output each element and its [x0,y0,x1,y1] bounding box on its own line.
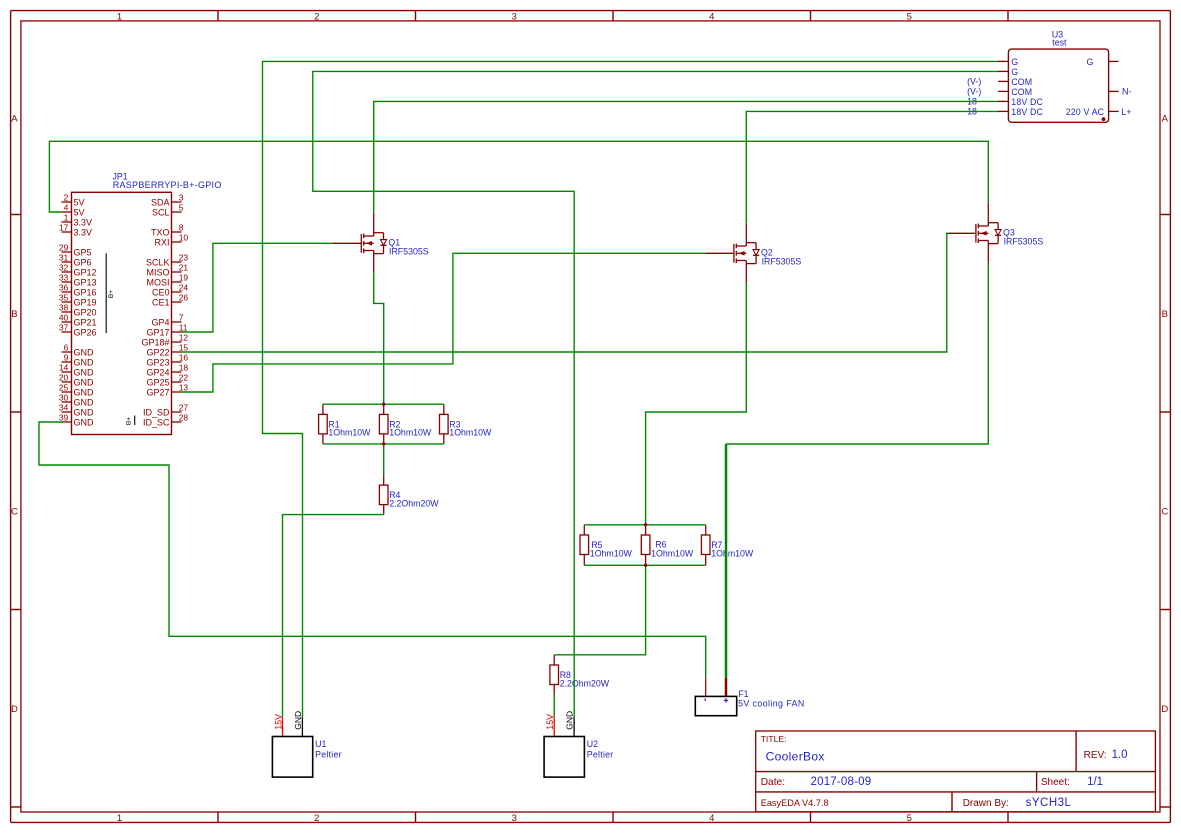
svg-text:SCL: SCL [152,208,170,218]
svg-text:12: 12 [179,332,189,342]
svg-text:(V-): (V-) [967,87,981,97]
svg-text:4: 4 [709,813,714,824]
svg-text:CoolerBox: CoolerBox [766,749,825,763]
svg-text:23: 23 [179,252,189,262]
svg-text:32: 32 [59,262,69,272]
svg-text:(V-): (V-) [967,77,981,87]
svg-text:5: 5 [179,202,184,212]
svg-text:GND: GND [74,408,95,418]
svg-text:REV:: REV: [1084,750,1107,761]
svg-text:1Ohm10W: 1Ohm10W [711,548,754,558]
svg-text:25: 25 [59,382,69,392]
svg-text:D: D [11,704,18,715]
svg-text:21: 21 [179,262,189,272]
svg-text:SCLK: SCLK [146,258,170,268]
svg-text:B: B [1162,309,1168,320]
svg-text:8: 8 [179,222,184,232]
svg-text:28: 28 [179,412,189,422]
svg-text:GP19: GP19 [74,298,97,308]
svg-text:29: 29 [59,242,69,252]
svg-text:26: 26 [179,292,189,302]
svg-text:GP6: GP6 [74,258,92,268]
svg-text:13: 13 [179,382,189,392]
svg-text:24: 24 [179,282,189,292]
svg-text:ID_SD: ID_SD [143,408,170,418]
svg-text:2: 2 [314,813,319,824]
svg-text:Date:: Date: [761,777,785,788]
svg-text:GP21: GP21 [74,318,97,328]
svg-text:17: 17 [59,222,69,232]
svg-text:38: 38 [59,302,69,312]
svg-text:1/1: 1/1 [1087,776,1103,788]
svg-text:GND: GND [74,418,95,428]
svg-text:40: 40 [59,312,69,322]
svg-text:sYCH3L: sYCH3L [1026,797,1072,809]
svg-text:GP5: GP5 [74,248,92,258]
svg-text:G: G [1087,57,1094,67]
svg-text:1Ohm10W: 1Ohm10W [651,548,694,558]
svg-text:B+: B+ [108,290,115,298]
svg-text:COM: COM [1011,77,1032,87]
svg-text:MISO: MISO [146,268,169,278]
svg-text:4: 4 [709,11,714,22]
svg-text:2: 2 [314,11,319,22]
svg-text:GND: GND [74,358,95,368]
svg-text:19: 19 [179,272,189,282]
svg-text:1Ohm10W: 1Ohm10W [449,428,492,438]
svg-text:Drawn By:: Drawn By: [963,798,1009,809]
svg-text:3.3V: 3.3V [74,228,93,238]
svg-text:3.3V: 3.3V [74,218,93,228]
svg-text:1Ohm10W: 1Ohm10W [389,428,432,438]
svg-text:D: D [1161,704,1168,715]
svg-text:TITLE:: TITLE: [761,734,787,744]
svg-text:5V: 5V [74,198,85,208]
svg-text:GP26: GP26 [74,328,97,338]
svg-text:Peltier: Peltier [587,749,614,759]
svg-text:GP27: GP27 [146,388,169,398]
svg-text:A: A [1162,113,1169,124]
svg-text:35: 35 [59,292,69,302]
svg-text:37: 37 [59,322,69,332]
svg-text:22: 22 [179,372,189,382]
svg-text:3: 3 [512,11,517,22]
svg-text:31: 31 [59,252,69,262]
svg-text:U2: U2 [587,739,598,749]
svg-text:GP4: GP4 [151,318,169,328]
svg-text:test: test [1052,37,1067,47]
svg-text:GP20: GP20 [74,308,97,318]
svg-text:GP17: GP17 [146,328,169,338]
svg-text:1Ohm10W: 1Ohm10W [328,428,371,438]
svg-text:18V DC: 18V DC [1011,97,1043,107]
svg-text:GP23: GP23 [146,358,169,368]
svg-text:1: 1 [117,813,122,824]
svg-text:IRF5305S: IRF5305S [389,247,429,257]
svg-text:3: 3 [512,813,517,824]
svg-text:2.2Ohm20W: 2.2Ohm20W [560,678,610,688]
svg-text:3: 3 [179,192,184,202]
svg-text:5V cooling FAN: 5V cooling FAN [738,698,805,708]
svg-text:COM: COM [1011,87,1032,97]
svg-text:15: 15 [179,342,189,352]
svg-text:IRF5305S: IRF5305S [1004,237,1044,247]
svg-text:5: 5 [907,813,912,824]
svg-text:Peltier: Peltier [315,749,342,759]
svg-text:39: 39 [59,412,69,422]
svg-text:N-: N- [1122,87,1132,97]
svg-text:GP24: GP24 [146,368,169,378]
svg-text:GP18#: GP18# [141,338,169,348]
svg-text:14: 14 [59,362,69,372]
svg-text:7: 7 [179,312,184,322]
svg-text:L+: L+ [1121,107,1131,117]
svg-text:ID_SC: ID_SC [143,418,170,428]
svg-text:2: 2 [64,192,69,202]
svg-text:CE0: CE0 [152,288,170,298]
svg-text:C: C [11,506,18,517]
svg-text:10: 10 [179,232,189,242]
svg-text:A: A [11,113,18,124]
svg-text:9: 9 [64,352,69,362]
svg-text:G: G [1011,67,1018,77]
svg-text:GP16: GP16 [74,288,97,298]
svg-text:GND: GND [565,711,575,730]
svg-text:IRF5305S: IRF5305S [762,257,802,267]
svg-text:20: 20 [59,372,69,382]
svg-text:5V: 5V [74,208,85,218]
svg-text:GND: GND [74,398,95,408]
svg-text:GP12: GP12 [74,268,97,278]
svg-text:CE1: CE1 [152,298,170,308]
svg-text:GND: GND [74,378,95,388]
svg-text:1Ohm10W: 1Ohm10W [590,548,633,558]
svg-text:2.2Ohm20W: 2.2Ohm20W [389,498,439,508]
svg-text:33: 33 [59,272,69,282]
svg-text:EasyEDA V4.7.8: EasyEDA V4.7.8 [761,798,829,808]
svg-text:MOSI: MOSI [146,278,169,288]
svg-text:27: 27 [179,402,189,412]
svg-text:30: 30 [59,392,69,402]
svg-text:GP22: GP22 [146,348,169,358]
svg-text:GND: GND [293,711,303,730]
svg-text:1.0: 1.0 [1112,749,1128,761]
svg-text:1: 1 [64,212,69,222]
svg-text:36: 36 [59,282,69,292]
svg-text:GND: GND [74,348,95,358]
svg-text:GP25: GP25 [146,378,169,388]
svg-text:RASPBERRYPI-B+-GPIO: RASPBERRYPI-B+-GPIO [113,180,222,190]
svg-text:18V DC: 18V DC [1011,107,1043,117]
svg-text:U1: U1 [315,739,326,749]
svg-text:SDA: SDA [151,198,170,208]
svg-text:G: G [1011,57,1018,67]
svg-text:2017-08-09: 2017-08-09 [811,776,872,788]
svg-text:C: C [1161,506,1168,517]
svg-text:4: 4 [64,202,69,212]
svg-text:18: 18 [179,362,189,372]
svg-text:GND: GND [74,368,95,378]
svg-text:220 V AC: 220 V AC [1066,107,1105,117]
svg-text:TXO: TXO [151,228,170,238]
svg-text:1: 1 [117,11,122,22]
svg-text:34: 34 [59,402,69,412]
svg-text:6: 6 [64,342,69,352]
svg-text:16: 16 [179,352,189,362]
svg-text:11: 11 [179,322,188,332]
svg-text:Sheet:: Sheet: [1041,777,1070,788]
svg-text:B+: B+ [126,417,133,425]
svg-text:B: B [11,309,17,320]
svg-text:GP13: GP13 [74,278,97,288]
svg-text:RXI: RXI [154,238,169,248]
svg-text:5: 5 [907,11,912,22]
svg-text:GND: GND [74,388,95,398]
